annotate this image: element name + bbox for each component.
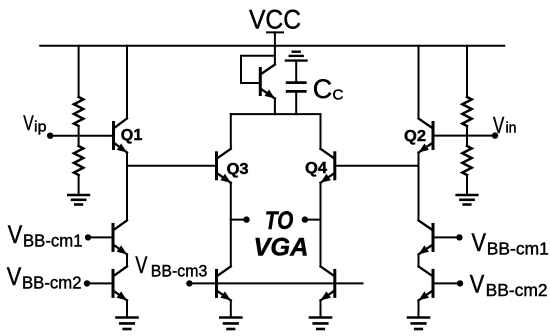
node vip label — [23, 111, 46, 136]
wire Q8 emitter to ground — [126, 300, 128, 317]
node VBB-cm1 right label — [472, 229, 549, 258]
AC ground above Cc (inverted) — [286, 52, 307, 61]
transistor Q5 (left cm3 current source) — [217, 266, 231, 300]
wire VCC rail — [40, 45, 504, 47]
transistor Q2 — [419, 119, 434, 153]
wire Q5 emitter to ground — [230, 300, 232, 317]
wire R4 to ground — [466, 175, 468, 195]
svg-text:Q2: Q2 — [404, 128, 426, 145]
capacitor Cc — [287, 83, 305, 92]
transistor Q1 — [114, 119, 128, 153]
wire Q9 emitter to Q10 collector — [418, 254, 420, 266]
node VBB-cm2 right label — [470, 271, 548, 300]
wire rail to R1 — [78, 46, 80, 97]
svg-text:BB-cm1: BB-cm1 — [487, 238, 549, 258]
node vip terminal dot — [47, 133, 53, 139]
svg-text:V: V — [7, 263, 22, 291]
svg-text:C: C — [313, 74, 333, 104]
ground (under Q6) — [310, 318, 331, 330]
node vin terminal dot — [492, 132, 498, 138]
svg-text:VCC: VCC — [249, 4, 301, 34]
resistor R3 (right top) — [462, 97, 471, 126]
ground (left divider) — [68, 195, 89, 205]
svg-text:BB-cm1: BB-cm1 — [23, 231, 83, 251]
wire VBB-cm2 right to base — [433, 282, 460, 284]
wire VBB-cm2 left to base — [87, 282, 113, 284]
svg-text:BB-cm3: BB-cm3 — [151, 261, 208, 280]
ground (under Q10) — [408, 318, 429, 330]
VCC terminal tick — [267, 31, 283, 33]
svg-text:V: V — [8, 221, 23, 249]
wire VBB-cm1 left to base — [88, 236, 113, 238]
svg-text:V: V — [493, 112, 505, 138]
wire Q4 emitter down — [320, 183, 322, 267]
svg-text:Q3: Q3 — [227, 161, 249, 178]
svg-text:V: V — [23, 111, 34, 135]
wire Q4 base — [335, 165, 419, 167]
wire Q7 emitter to Q8 collector — [126, 254, 128, 266]
wire Q3 emitter down — [230, 183, 232, 267]
wire VBB-cm1 right to base — [433, 236, 459, 238]
wire U1 collector to rail — [274, 46, 276, 65]
wire TO VGA right stub — [305, 219, 321, 221]
wire Q10 emitter to ground — [418, 300, 420, 317]
wire R3 to R4 — [466, 126, 468, 146]
svg-text:Q1: Q1 — [121, 127, 143, 144]
svg-text:BB-cm2: BB-cm2 — [22, 273, 82, 293]
node VBB-cm3 label — [135, 252, 207, 281]
node VBB-cm2 left label — [7, 263, 82, 292]
wire U1 diode connection — [241, 56, 275, 83]
transistor Q8 (left cascode cm2) — [113, 266, 127, 300]
wire VBB-cm3 bias line — [189, 282, 362, 284]
svg-text:C: C — [333, 88, 344, 104]
svg-text:TO: TO — [265, 207, 294, 235]
wire Q2 emitter down — [418, 153, 420, 221]
svg-text:in: in — [506, 119, 517, 136]
wire Q4 collector up — [320, 114, 322, 149]
transistor Q10 (right cascode cm2) — [419, 266, 434, 300]
wire TO VGA left stub — [231, 219, 247, 221]
ground (under Q5) — [220, 318, 241, 330]
wire U1 emitter down — [274, 99, 276, 115]
wire Q2 collector to rail — [418, 46, 420, 119]
wire rail to R3 — [466, 46, 468, 97]
wire Cc to top common — [295, 91, 297, 114]
node VBB-cm1 left label — [8, 221, 83, 250]
svg-text:V: V — [135, 252, 147, 279]
label Cc — [313, 74, 344, 104]
wire Q2 base to vin — [433, 135, 495, 137]
node VBB-cm2 left dot — [84, 280, 90, 286]
svg-text:VGA: VGA — [254, 233, 309, 261]
node VBB-cm2 right dot — [457, 280, 463, 286]
transistor Q7 (left cascode cm1) — [113, 220, 127, 254]
wire Q1 emitter down — [126, 153, 128, 221]
wire Q1 collector to rail — [126, 46, 128, 119]
node VBB-cm3 terminal dot — [186, 280, 192, 286]
node VBB-cm1 right dot — [456, 234, 462, 240]
transistor Q3 — [217, 149, 231, 183]
svg-text:Q4: Q4 — [305, 160, 327, 177]
resistor R4 (right bottom) — [462, 146, 471, 175]
node vin label — [493, 112, 517, 138]
ground (right divider) — [457, 195, 478, 205]
wire R2 to ground — [78, 175, 80, 195]
wire VCC stem — [274, 32, 276, 45]
svg-text:ip: ip — [34, 118, 47, 135]
resistor R2 (left bottom) — [74, 146, 83, 175]
node VBB-cm1 left dot — [85, 234, 91, 240]
wire Q3 collector up — [230, 114, 232, 149]
transistor Q6 (right cm3 current source) — [321, 266, 335, 300]
svg-text:V: V — [470, 271, 485, 299]
wire Q3 base — [127, 165, 217, 167]
svg-text:V: V — [472, 229, 487, 257]
wire Q6 emitter to ground — [320, 300, 322, 317]
wire AC ground to Cc — [295, 61, 297, 83]
transistor U1 (diode-connected, top) — [260, 65, 275, 99]
transistor Q4 — [321, 149, 335, 183]
svg-text:BB-cm2: BB-cm2 — [486, 280, 548, 300]
ground (under Q8) — [117, 318, 138, 330]
wire top common (Q3/Q4 collectors) — [231, 113, 321, 115]
node TO VGA left dot — [243, 216, 249, 222]
wire vip to Q1 base — [50, 135, 113, 137]
resistor R1 (left top) — [74, 97, 83, 126]
wire R1 to R2 — [78, 126, 80, 146]
node TO VGA right dot — [302, 216, 308, 222]
label TO VGA — [254, 207, 309, 261]
transistor Q9 (right cascode cm1) — [419, 220, 434, 254]
